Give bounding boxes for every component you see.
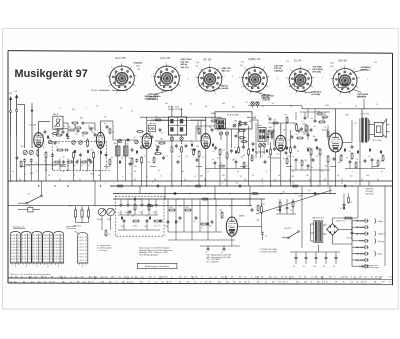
- resistor R61: [348, 198, 350, 203]
- capacitor C28b: [167, 220, 170, 222]
- inline bus resistor Rb7: [203, 198, 208, 200]
- svg-text:25: 25: [39, 256, 41, 258]
- capacitor C13c: [214, 146, 217, 148]
- svg-text:50: 50: [48, 175, 50, 177]
- resistor R65: [109, 129, 111, 133]
- resistor R17: [270, 150, 272, 155]
- svg-text:a: a: [352, 171, 353, 173]
- svg-text:0 4 8 2: 0 4 8 2: [44, 256, 50, 258]
- svg-text:20k: 20k: [160, 139, 163, 141]
- smoothing resistor R31: [345, 217, 351, 219]
- svg-text:25: 25: [39, 238, 41, 240]
- tone resistor R24: [134, 204, 136, 210]
- svg-text:1: 1: [249, 94, 250, 96]
- wire V1b anode to IF: [100, 121, 102, 132]
- electrolytic blobs (filled small caps): [47, 136, 49, 139]
- svg-text:4n: 4n: [311, 118, 313, 120]
- svg-text:90: 90: [213, 151, 215, 153]
- resistor R16b: [219, 150, 221, 155]
- wire seg y158: [270, 157, 280, 159]
- svg-text:25: 25: [28, 244, 30, 246]
- svg-text:49p n/W: 49p n/W: [356, 246, 364, 249]
- svg-text:4: 4: [368, 175, 369, 177]
- svg-text:3n: 3n: [161, 133, 163, 135]
- speaker right wires: [386, 124, 389, 126]
- svg-text:25: 25: [18, 262, 20, 264]
- svg-text:6p: 6p: [91, 131, 93, 133]
- resistor R27: [170, 209, 175, 211]
- svg-text:0 4 8 2: 0 4 8 2: [33, 241, 39, 243]
- mains switch S2: [289, 232, 299, 238]
- svg-text:2n: 2n: [244, 276, 246, 278]
- svg-text:70: 70: [146, 176, 148, 178]
- svg-text:2k: 2k: [109, 234, 111, 236]
- svg-text:7: 7: [224, 76, 225, 78]
- resistor R18: [290, 148, 292, 153]
- svg-text:2: 2: [197, 87, 198, 89]
- svg-text:3: 3: [106, 76, 107, 78]
- strip jog wires: [20, 166, 26, 168]
- bus rail E: [8, 205, 252, 207]
- svg-text:2n: 2n: [389, 282, 391, 284]
- svg-text:6p: 6p: [88, 126, 90, 128]
- wire BF1 to grid cluster: [63, 122, 68, 124]
- svg-text:Röhrenvoltm.: Röhrenvoltm.: [67, 227, 78, 230]
- TR1 winding stubs: [311, 223, 314, 225]
- svg-text:25: 25: [61, 250, 63, 252]
- capacitor C28: [211, 220, 214, 222]
- tone network lower wires: [123, 224, 125, 231]
- connector J7 49p n/W: [352, 259, 365, 261]
- dial lamp La1: [251, 102, 254, 105]
- svg-text:1k: 1k: [43, 147, 45, 149]
- svg-text:40: 40: [69, 127, 71, 129]
- capacitor C40: [57, 129, 60, 131]
- svg-text:0 4 8 2: 0 4 8 2: [79, 243, 84, 245]
- svg-text:3p: 3p: [237, 171, 239, 173]
- svg-text:4W/4B4-7: 4W/4B4-7: [361, 69, 372, 72]
- svg-text:3: 3: [310, 183, 311, 185]
- svg-text:a: a: [36, 162, 37, 164]
- svg-text:0: 0: [355, 183, 356, 185]
- svg-text:250: 250: [374, 62, 377, 64]
- svg-text:25: 25: [28, 238, 30, 240]
- svg-text:1n: 1n: [311, 276, 313, 278]
- svg-text:1M log: 1M log: [97, 219, 102, 221]
- EM80 grid resistor R30: [261, 207, 263, 213]
- svg-text:5n: 5n: [293, 266, 295, 268]
- capacitor C6b: [127, 138, 130, 140]
- svg-text:6: 6: [264, 67, 265, 69]
- svg-text:1: 1: [339, 95, 340, 97]
- svg-text:4n: 4n: [293, 157, 295, 159]
- svg-text:5: 5: [254, 64, 255, 66]
- svg-text:0,5M: 0,5M: [107, 219, 111, 221]
- svg-text:80: 80: [74, 125, 76, 127]
- resistor R6b: [141, 158, 143, 163]
- resistor R22: [319, 149, 321, 155]
- svg-text:100k: 100k: [268, 127, 272, 129]
- svg-text:47k: 47k: [154, 226, 157, 228]
- svg-text:70: 70: [376, 104, 378, 106]
- svg-text:25: 25: [39, 250, 41, 252]
- osc trimmer CT3: [135, 140, 139, 144]
- svg-text:6: 6: [354, 68, 355, 70]
- svg-text:2n: 2n: [205, 252, 207, 254]
- capacitor C13b: [234, 135, 236, 138]
- resistor R12: [226, 153, 228, 158]
- tube V6 EM80 magic eye: [226, 217, 237, 236]
- svg-text:2n: 2n: [203, 157, 205, 159]
- lower mid fill 205-260: [214, 161, 217, 163]
- trimmer CT5: [141, 146, 144, 149]
- svg-text:2n: 2n: [304, 129, 306, 131]
- svg-text:0,1: 0,1: [223, 150, 226, 152]
- svg-text:C4E/4pA: C4E/4pA: [274, 70, 283, 73]
- resistor R28: [186, 209, 191, 211]
- svg-text:50p: 50p: [196, 62, 199, 64]
- IF transformer module BF460 body: [168, 117, 186, 135]
- BF460 coil block 3: [170, 127, 173, 131]
- svg-text:200: 200: [196, 146, 199, 148]
- voltage table card 6: [78, 233, 88, 263]
- svg-text:1k: 1k: [113, 132, 115, 134]
- wire front-end verticals: [45, 159, 47, 171]
- resistor R9: [181, 147, 183, 152]
- tube V2 ECH81: [142, 134, 151, 149]
- svg-text:25: 25: [39, 241, 41, 243]
- svg-text:7: 7: [359, 77, 360, 79]
- BF460 internal lines: [168, 125, 186, 127]
- tube V1b ECC85 triode: [96, 132, 104, 148]
- svg-text:310 n/W: 310 n/W: [356, 254, 364, 256]
- grid resistor R21: [310, 149, 312, 155]
- svg-text:25: 25: [39, 247, 41, 249]
- svg-text:2n: 2n: [139, 212, 141, 214]
- svg-text:25: 25: [39, 244, 41, 246]
- svg-text:CWF.515/2: CWF.515/2: [145, 99, 157, 101]
- svg-text:0,1: 0,1: [217, 158, 220, 160]
- svg-text:240: 240: [21, 146, 24, 148]
- svg-text:3: 3: [277, 78, 278, 80]
- svg-text:25: 25: [39, 235, 41, 237]
- tone resistor R26b: [155, 220, 160, 222]
- inline bus capacitor Cb6: [313, 192, 315, 195]
- svg-text:25: 25: [50, 238, 52, 240]
- svg-text:0 4 8 2: 0 4 8 2: [11, 238, 17, 240]
- screen resistor R11: [193, 150, 195, 155]
- input trap capacitor C1: [23, 159, 26, 161]
- bus rail B main: [110, 185, 393, 187]
- svg-text:0,5: 0,5: [146, 216, 148, 218]
- svg-text:0 4 8 2: 0 4 8 2: [54, 250, 60, 252]
- grid leak resistor R7: [138, 131, 143, 133]
- svg-text:4: 4: [290, 69, 291, 71]
- svg-text:3n: 3n: [289, 140, 291, 142]
- resistor R16: [240, 130, 245, 132]
- svg-text:5p: 5p: [60, 135, 62, 137]
- EM80 bottom wires: [231, 236, 233, 246]
- tube socket EF89 base diagram: [198, 68, 222, 92]
- svg-text:50: 50: [129, 158, 131, 160]
- spark capacitor C35: [335, 256, 338, 258]
- svg-text:40: 40: [268, 131, 270, 133]
- svg-text:C4(G)E: C4(G)E: [91, 90, 98, 92]
- svg-text:25: 25: [50, 247, 52, 249]
- svg-text:5n: 5n: [153, 212, 155, 214]
- wire y123 to V1b: [85, 122, 95, 124]
- schematic frame top line: [8, 51, 393, 54]
- svg-text:2: 2: [152, 182, 153, 184]
- resistor R58: [105, 231, 107, 236]
- svg-text:0 4 8 2: 0 4 8 2: [22, 235, 28, 237]
- bus rail C: [113, 193, 336, 195]
- svg-text:5n: 5n: [341, 183, 343, 185]
- svg-text:4k: 4k: [351, 202, 353, 204]
- tuning trimmer CT1: [72, 141, 76, 145]
- svg-text:0 4 8 2: 0 4 8 2: [44, 244, 50, 246]
- svg-text:50p: 50p: [165, 103, 168, 105]
- svg-text:4: 4: [156, 67, 157, 69]
- svg-text:490 n/W: 490 n/W: [356, 233, 364, 236]
- wire det region verticals: [259, 147, 261, 158]
- svg-text:0 4 8 2: 0 4 8 2: [11, 235, 17, 237]
- svg-text:7: 7: [322, 77, 323, 79]
- ruler tick marks: [29, 276, 31, 279]
- front box bottom parts row: [55, 161, 59, 163]
- capacitor C57: [314, 119, 317, 121]
- resistor R44: [327, 132, 329, 137]
- svg-text:25n: 25n: [165, 226, 168, 228]
- capacitor C64: [298, 129, 301, 131]
- tone resistor R26: [134, 220, 139, 222]
- svg-text:0 4 8 2: 0 4 8 2: [54, 262, 60, 264]
- svg-text:2: 2: [331, 88, 332, 90]
- capacitor C5b: [88, 158, 91, 160]
- resistor R23b: [351, 154, 353, 159]
- coupling capacitor C4: [65, 149, 67, 152]
- capacitor C61: [151, 135, 154, 137]
- svg-text:25: 25: [18, 244, 20, 246]
- svg-text:0 4 8 2: 0 4 8 2: [11, 247, 17, 249]
- inline bus resistor Rb2: [196, 185, 201, 187]
- capacitor C14: [273, 147, 276, 149]
- svg-text:0 4 8 2: 0 4 8 2: [33, 247, 39, 249]
- svg-text:a: a: [117, 162, 118, 164]
- svg-text:25: 25: [28, 262, 30, 264]
- svg-text:0 4 8 2: 0 4 8 2: [44, 235, 50, 237]
- svg-text:CWF.703: CWF.703: [261, 98, 271, 100]
- bridge lower wire: [332, 235, 334, 244]
- svg-text:0 4 8 2: 0 4 8 2: [22, 256, 28, 258]
- wire fuse: [18, 209, 28, 211]
- svg-text:1k: 1k: [262, 106, 264, 108]
- tube socket ECH81 base diagram: [155, 66, 180, 91]
- svg-text:50u: 50u: [338, 162, 341, 164]
- svg-text:4k: 4k: [24, 174, 26, 176]
- wire IF module down: [171, 135, 173, 137]
- coupling capacitor C17: [314, 139, 316, 142]
- svg-text:4: 4: [334, 69, 335, 71]
- oscillator coil pack L4 hatched: [116, 146, 121, 156]
- svg-text:B250 C75: B250 C75: [337, 221, 347, 223]
- capacitor C51: [62, 130, 65, 132]
- svg-text:b: b: [262, 156, 263, 158]
- tone cap C24: [123, 219, 126, 221]
- svg-text:0 4 8 2: 0 4 8 2: [44, 253, 50, 255]
- power rail right: [351, 218, 353, 230]
- resistor R5: [93, 153, 95, 158]
- capacitor C42: [159, 128, 162, 130]
- svg-text:4n: 4n: [355, 106, 357, 108]
- svg-text:240: 240: [9, 93, 12, 95]
- tuning trimmer CT2: [79, 141, 83, 145]
- svg-text:4: 4: [200, 68, 201, 70]
- svg-text:0 4 8 2: 0 4 8 2: [44, 238, 50, 240]
- svg-text:(2x): (2x): [240, 65, 243, 67]
- svg-text:9: 9: [127, 92, 128, 94]
- bus rail A: [8, 180, 393, 182]
- connector J6 Netz: [352, 253, 365, 255]
- svg-text:2n: 2n: [194, 282, 196, 284]
- svg-text:7: 7: [314, 77, 315, 79]
- resistor R29b: [221, 213, 223, 218]
- svg-text:25: 25: [50, 244, 52, 246]
- V3 cap C11a: [193, 148, 196, 150]
- svg-text:6: 6: [176, 66, 177, 68]
- svg-text:155: 155: [286, 61, 289, 63]
- svg-text:1k: 1k: [52, 136, 54, 138]
- svg-text:25: 25: [85, 260, 87, 262]
- svg-text:5p: 5p: [63, 157, 65, 159]
- svg-text:5n: 5n: [177, 221, 179, 223]
- svg-text:60: 60: [111, 157, 113, 159]
- capacitor C27: [195, 216, 198, 218]
- resistor R62: [240, 137, 244, 139]
- voltage table card 5: [54, 232, 64, 264]
- svg-text:2 TONW 1000 OHM: 2 TONW 1000 OHM: [260, 249, 277, 251]
- svg-text:15k: 15k: [273, 120, 276, 122]
- svg-text:10n: 10n: [313, 266, 316, 268]
- svg-text:1: 1: [105, 183, 106, 185]
- svg-text:65: 65: [191, 149, 193, 151]
- svg-text:50: 50: [54, 165, 56, 167]
- svg-text:b: b: [266, 171, 267, 173]
- svg-text:4n: 4n: [134, 171, 136, 173]
- capacitor C12: [242, 145, 245, 147]
- svg-text:0 4 8 2: 0 4 8 2: [11, 250, 17, 252]
- IF3 trimmers: [219, 132, 222, 135]
- svg-text:a: a: [130, 174, 131, 176]
- svg-text:25: 25: [85, 247, 87, 249]
- svg-text:a: a: [86, 107, 87, 109]
- svg-text:c = Chassis: c = Chassis: [97, 250, 107, 252]
- svg-text:9: 9: [172, 93, 173, 95]
- svg-text:0 4 8 2: 0 4 8 2: [79, 257, 84, 259]
- BF460 coil block 4: [180, 127, 183, 131]
- output transformer winding secondary: [365, 118, 368, 143]
- ratio det trimmers: [259, 143, 262, 146]
- tone resistor R25: [148, 204, 150, 210]
- svg-text:10k: 10k: [249, 121, 252, 123]
- tube V5 EL84: [329, 133, 343, 152]
- capacitor C44: [307, 133, 310, 135]
- wire det column verticals: [255, 123, 257, 158]
- svg-text:9: 9: [305, 93, 306, 95]
- svg-text:25: 25: [39, 253, 41, 255]
- capacitor C7: [135, 159, 138, 161]
- antenna ground drops: [10, 135, 12, 181]
- cathode capacitor C18: [333, 157, 336, 159]
- voltage table card 1: [10, 232, 20, 264]
- front-end bottom rail: [25, 164, 66, 166]
- svg-text:5704-074: 5704-074: [357, 96, 366, 98]
- svg-text:310 n/W: 310 n/W: [356, 227, 364, 229]
- svg-text:6: 6: [131, 66, 132, 68]
- extra rail junction dots: [24, 180, 25, 181]
- svg-text:3: 3: [329, 78, 330, 80]
- svg-text:2: 2: [153, 86, 154, 88]
- svg-text:30: 30: [148, 162, 150, 164]
- svg-text:50: 50: [247, 166, 249, 168]
- svg-text:0 4 8 2: 0 4 8 2: [22, 259, 28, 261]
- svg-text:2n: 2n: [191, 141, 193, 143]
- svg-text:9: 9: [74, 175, 75, 177]
- bridge wires right: [338, 228, 352, 230]
- inline bus capacitor Cb5: [173, 192, 175, 195]
- tube socket EM80 base diagram: [333, 69, 357, 93]
- svg-text:2n: 2n: [333, 266, 335, 268]
- svg-text:2n: 2n: [217, 131, 219, 133]
- svg-text:25: 25: [28, 241, 30, 243]
- svg-text:5p: 5p: [209, 127, 211, 129]
- svg-text:110: 110: [282, 192, 285, 194]
- resistor R5c: [57, 134, 62, 136]
- bypass capacitor C3: [51, 154, 54, 156]
- svg-text:1k: 1k: [196, 129, 198, 131]
- strip parts row: [16, 156, 19, 158]
- svg-text:25: 25: [85, 253, 87, 255]
- svg-text:2P0/4B4-3: 2P0/4B4-3: [361, 66, 372, 69]
- BF460 top leads: [171, 106, 173, 117]
- svg-text:25: 25: [61, 259, 63, 261]
- svg-text:3: 3: [195, 77, 196, 79]
- svg-text:5n: 5n: [221, 252, 223, 254]
- resistor R8: [171, 147, 173, 152]
- svg-text:25: 25: [61, 244, 63, 246]
- svg-text:(B) 0,7 (BK): (B) 0,7 (BK): [373, 140, 382, 142]
- tube V3 EF89: [201, 134, 210, 149]
- svg-text:8p: 8p: [104, 123, 106, 125]
- svg-text:0 4 8 2: 0 4 8 2: [11, 256, 17, 258]
- more junction dots: [54, 185, 55, 186]
- svg-text:b = Pertinaxplatte: b = Pertinaxplatte: [97, 247, 112, 250]
- svg-text:0 4 8 2: 0 4 8 2: [54, 235, 60, 237]
- svg-text:25: 25: [28, 247, 30, 249]
- svg-text:25: 25: [50, 235, 52, 237]
- IF3 coil blocks: [218, 120, 220, 123]
- svg-text:560: 560: [137, 69, 140, 71]
- cathode resistor R23: [327, 156, 329, 162]
- svg-text:5n: 5n: [212, 159, 214, 161]
- capacitor C10b: [157, 145, 160, 147]
- capacitor C41: [94, 133, 97, 135]
- wire rail drops right: [335, 109, 337, 133]
- wire seg y152: [255, 151, 265, 153]
- svg-text:9k: 9k: [322, 120, 324, 122]
- IF box internal parts: [239, 122, 241, 126]
- resistor R41: [156, 119, 161, 121]
